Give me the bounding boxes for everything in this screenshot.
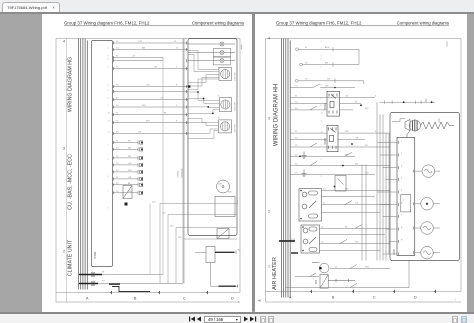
svg-text:BN: BN	[325, 62, 328, 64]
sensor connector symbols	[138, 140, 143, 194]
svg-text:31: 31	[323, 203, 326, 205]
svg-text:42: 42	[295, 154, 298, 156]
switch contacts	[310, 106, 352, 166]
svg-text:MOTOR: MOTOR	[235, 124, 237, 133]
blower motor	[392, 119, 420, 138]
motor M1	[219, 68, 232, 81]
svg-text:MOTOR: MOTOR	[235, 72, 237, 81]
wire y269	[98, 283, 183, 285]
svg-text:8: 8	[321, 98, 323, 100]
feed arrow	[279, 240, 295, 242]
svg-text:WS: WS	[365, 108, 369, 110]
svg-text:2: 2	[321, 159, 323, 161]
relay K2	[217, 229, 229, 239]
svg-text:4: 4	[321, 59, 323, 61]
svg-text:54: 54	[116, 48, 119, 50]
svg-text:6: 6	[108, 85, 110, 87]
svg-text:31: 31	[116, 56, 119, 58]
wire rows bottom	[285, 261, 409, 288]
motor M2	[219, 98, 231, 112]
svg-text:54: 54	[305, 62, 308, 64]
svg-text:GN: GN	[325, 86, 329, 88]
svg-text:4: 4	[401, 178, 403, 180]
svg-text:44: 44	[295, 108, 298, 110]
bus wires	[281, 39, 290, 298]
svg-text:54: 54	[323, 189, 326, 191]
svg-text:WS: WS	[355, 242, 359, 244]
svg-text:6: 6	[321, 85, 323, 87]
svg-text:SB: SB	[355, 164, 358, 166]
wire row y73	[290, 84, 355, 88]
junction box mid	[334, 176, 346, 192]
ground bar thick	[79, 274, 102, 276]
glow element 1	[422, 165, 435, 178]
switch panel 507A	[299, 189, 322, 222]
svg-text:5: 5	[321, 208, 323, 210]
sensor G1	[217, 180, 230, 193]
svg-text:2: 2	[401, 153, 403, 155]
wire vertical bus right	[182, 39, 184, 284]
svg-text:CLIMATE UNIT: CLIMATE UNIT	[68, 239, 74, 276]
svg-text:AT: AT	[102, 271, 105, 274]
frame tick right	[241, 45, 243, 50]
bus wires	[79, 39, 88, 290]
bottom toolbar	[0, 312, 474, 323]
svg-text:8: 8	[401, 227, 403, 229]
svg-text:SB: SB	[154, 67, 157, 69]
lamp row 2	[188, 48, 235, 56]
svg-text:12: 12	[321, 227, 324, 229]
svg-text:503A: 503A	[323, 103, 327, 110]
svg-text:4: 4	[321, 191, 323, 193]
wire number labels	[102, 41, 241, 283]
svg-text:1: 1	[268, 265, 270, 269]
svg-text:35: 35	[295, 137, 298, 139]
grid numbers	[63, 40, 65, 254]
wire thick right	[215, 251, 235, 253]
svg-text:Group 37 Wiring diagram FH6, F: Group 37 Wiring diagram FH6, FM12, FH12	[276, 21, 362, 26]
svg-text:9: 9	[108, 105, 110, 107]
svg-text:SW: SW	[365, 267, 369, 269]
svg-text:21: 21	[116, 121, 119, 123]
svg-text:K: K	[218, 118, 220, 120]
svg-text:AIR HEATER: AIR HEATER	[272, 257, 278, 290]
svg-text:215: 215	[178, 237, 182, 239]
svg-text:WIRING DIAGRAM HG: WIRING DIAGRAM HG	[68, 57, 74, 112]
ground 1	[302, 152, 307, 159]
svg-text:7: 7	[401, 215, 403, 217]
wire fanout M3	[188, 119, 219, 139]
wire vertical mid	[162, 61, 164, 275]
browser tab bar	[0, 0, 474, 13]
svg-text:OX1: OX1	[138, 41, 143, 43]
wire w3	[295, 79, 364, 85]
heater block	[390, 113, 460, 261]
svg-text:3: 3	[108, 56, 110, 58]
svg-text:503B: 503B	[323, 138, 327, 145]
svg-text:C: C	[373, 296, 376, 300]
wire fanout M2	[188, 92, 219, 113]
svg-text:9: 9	[401, 240, 403, 242]
sensor stub wires	[113, 142, 139, 192]
terminal strip pin ticks	[399, 141, 414, 256]
svg-text:AC4: AC4	[325, 46, 330, 49]
feeder verticals	[362, 102, 389, 260]
glow element 3	[421, 222, 434, 235]
svg-text:12: 12	[321, 132, 324, 134]
svg-text:213: 213	[162, 213, 166, 215]
wire resistor down	[211, 263, 239, 287]
svg-text:3: 3	[108, 176, 110, 178]
wire rows box to module	[113, 43, 189, 134]
svg-text:8: 8	[108, 98, 110, 100]
lighter E1	[312, 263, 355, 289]
svg-text:MOTOR: MOTOR	[235, 102, 237, 111]
wire y260	[102, 274, 163, 276]
frame tick	[446, 42, 448, 47]
svg-text:CU, -BAS, -MCC, -ECC: CU, -BAS, -MCC, -ECC	[68, 154, 74, 210]
svg-text:31: 31	[305, 47, 308, 49]
svg-text:GN: GN	[146, 85, 150, 87]
svg-text:508: 508	[392, 249, 396, 254]
svg-text:1: 1	[401, 141, 403, 143]
svg-text:Component wiring diagrams: Component wiring diagrams	[192, 21, 244, 26]
frame tick marks	[110, 291, 208, 295]
svg-text:3: 3	[63, 147, 65, 151]
svg-text:Component wiring diagrams: Component wiring diagrams	[397, 21, 449, 26]
svg-text:GR: GR	[355, 137, 359, 139]
svg-text:5: 5	[108, 67, 110, 69]
svg-text:12: 12	[116, 98, 119, 100]
ground bar thick 3	[109, 283, 120, 285]
splice pins	[92, 272, 94, 286]
resistor R1	[206, 247, 215, 263]
svg-text:BN: BN	[142, 48, 145, 50]
svg-text:BN: BN	[128, 148, 131, 150]
svg-text:16: 16	[176, 48, 179, 50]
svg-text:SW: SW	[146, 121, 150, 123]
svg-text:OX: OX	[355, 203, 359, 205]
svg-text:7: 7	[108, 90, 110, 92]
svg-text:11: 11	[321, 121, 324, 123]
svg-text:WS: WS	[345, 189, 349, 191]
svg-text:4: 4	[108, 59, 110, 61]
resistor element	[420, 122, 454, 129]
wire rows mid	[290, 98, 390, 175]
svg-text:44: 44	[321, 242, 324, 244]
svg-text:7: 7	[321, 90, 323, 92]
svg-text:3: 3	[268, 117, 270, 121]
wire row above block	[379, 99, 435, 104]
svg-text:BL: BL	[355, 102, 358, 104]
relay 503A	[327, 91, 340, 116]
svg-text:13.5: 13.5	[291, 239, 296, 241]
svg-text:12: 12	[295, 102, 298, 104]
svg-text:31: 31	[295, 96, 298, 98]
sidebar labels	[68, 57, 74, 276]
svg-text:OX: OX	[345, 96, 349, 98]
svg-text:31: 31	[174, 41, 177, 43]
node dots	[188, 85, 214, 114]
svg-text:21: 21	[295, 131, 298, 133]
svg-text:GR: GR	[138, 132, 142, 134]
lamp row 3	[188, 57, 235, 65]
svg-text:75: 75	[295, 86, 298, 88]
svg-text:4: 4	[108, 191, 110, 193]
svg-text:35: 35	[116, 132, 119, 134]
svg-text:1: 1	[321, 41, 323, 43]
wires strip to elements	[415, 171, 440, 253]
svg-text:2: 2	[268, 210, 270, 214]
svg-text:OX: OX	[132, 56, 136, 58]
svg-text:WIRING DIAGRAM HH: WIRING DIAGRAM HH	[274, 84, 280, 146]
svg-text:10: 10	[321, 113, 324, 115]
svg-text:UNIT: UNIT	[237, 199, 239, 205]
svg-text:K: K	[218, 96, 220, 98]
svg-text:BT: BT	[102, 281, 105, 283]
ground bar thick 2	[79, 283, 98, 285]
svg-text:46: 46	[258, 299, 262, 303]
node dot relay	[125, 203, 128, 206]
svg-text:OX: OX	[160, 98, 164, 100]
module block right	[188, 39, 237, 236]
svg-text:16: 16	[305, 79, 308, 81]
svg-text:2: 2	[63, 250, 65, 254]
svg-text:SW: SW	[345, 131, 349, 133]
glow element 4	[421, 246, 434, 259]
frame border	[56, 39, 240, 303]
gauge 2	[421, 198, 434, 211]
svg-text:75: 75	[116, 67, 119, 69]
motor M3	[219, 120, 232, 133]
svg-text:5: 5	[403, 199, 405, 201]
grid numbers	[268, 37, 270, 269]
svg-text:75: 75	[295, 173, 298, 175]
svg-text:21: 21	[335, 267, 338, 269]
svg-text:8: 8	[375, 131, 377, 133]
pin numbers	[321, 41, 324, 209]
svg-text:GN: GN	[128, 163, 132, 165]
grid letters	[86, 297, 234, 301]
svg-text:2: 2	[108, 48, 110, 50]
svg-text:2: 2	[108, 159, 110, 161]
right page	[255, 14, 467, 312]
svg-text:11: 11	[108, 121, 111, 123]
svg-text:212: 212	[152, 202, 156, 204]
svg-text:31: 31	[295, 145, 298, 147]
switch contacts lower	[310, 201, 362, 288]
header rule	[64, 25, 244, 27]
terminal strip	[397, 138, 415, 256]
svg-text:SB: SB	[327, 79, 330, 81]
svg-text:4: 4	[268, 37, 270, 41]
svg-text:GR: GR	[128, 177, 132, 179]
wire fanout M1	[188, 51, 219, 90]
svg-text:RT: RT	[365, 145, 369, 147]
svg-text:K: K	[218, 68, 220, 70]
inner box S	[401, 195, 411, 212]
svg-text:801: 801	[228, 192, 232, 194]
staircase wires	[160, 204, 237, 284]
relay K1	[123, 186, 132, 199]
svg-text:6: 6	[401, 203, 403, 205]
svg-text:4: 4	[63, 40, 65, 44]
svg-text:44: 44	[116, 105, 119, 107]
svg-text:31: 31	[116, 41, 119, 43]
frame border	[265, 39, 461, 303]
svg-text:→|: →|	[453, 299, 456, 301]
svg-text:5: 5	[321, 67, 323, 69]
svg-text:BL: BL	[164, 113, 167, 115]
svg-text:WS: WS	[142, 105, 146, 107]
svg-text:31: 31	[116, 113, 119, 115]
svg-text:GM: GM	[218, 184, 222, 186]
svg-text:3: 3	[321, 56, 323, 58]
svg-text:5: 5	[401, 190, 403, 192]
svg-text:5408: 5408	[93, 251, 97, 258]
svg-text:10: 10	[108, 113, 111, 115]
left page	[42, 14, 252, 312]
wire bottom L	[112, 287, 150, 292]
svg-text:MODULE: MODULE	[182, 168, 184, 178]
pin ticks module	[186, 42, 188, 136]
wire rows panels	[320, 191, 391, 251]
svg-text:BN: BN	[345, 154, 348, 156]
svg-text:5: 5	[176, 105, 178, 107]
svg-text:D: D	[231, 297, 234, 301]
svg-text:16: 16	[116, 85, 119, 87]
svg-text:153: 153	[314, 279, 318, 284]
svg-text:A: A	[86, 297, 89, 301]
svg-text:A: A	[289, 296, 292, 300]
svg-text:C: C	[183, 297, 186, 301]
frame tick marks	[310, 290, 436, 294]
svg-text:8: 8	[176, 85, 178, 87]
svg-text:5: 5	[375, 96, 377, 98]
svg-text:16: 16	[295, 164, 298, 166]
grid letters	[289, 296, 417, 300]
svg-text:→|: →|	[236, 302, 239, 304]
node dots mid	[299, 104, 362, 166]
wire number labels	[291, 46, 405, 269]
svg-text:5408B: 5408B	[178, 171, 180, 178]
svg-text:3: 3	[321, 176, 323, 178]
wire loop top	[296, 47, 359, 67]
pin numbers	[108, 41, 111, 209]
svg-text:WS: WS	[128, 170, 132, 172]
svg-text:GN: GN	[365, 173, 369, 175]
sidebar labels	[272, 84, 280, 290]
node dots panels	[300, 190, 304, 252]
svg-text:B: B	[332, 296, 335, 300]
svg-text:214: 214	[170, 226, 174, 228]
header rule	[276, 25, 449, 27]
svg-text:AT: AT	[238, 249, 241, 252]
svg-text:9: 9	[176, 121, 178, 123]
svg-text:5: 5	[108, 208, 110, 210]
svg-text:3: 3	[401, 166, 403, 168]
wires block pins left	[377, 143, 397, 255]
lamp row 1	[188, 42, 235, 46]
svg-text:12: 12	[108, 132, 111, 134]
svg-text:2: 2	[176, 67, 178, 69]
connector 5408	[92, 41, 113, 267]
wire resistor in	[195, 251, 206, 253]
svg-text:1: 1	[108, 144, 110, 146]
control unit box	[215, 197, 235, 217]
switch panel 507B	[301, 225, 320, 253]
svg-text:Group 37 Wiring diagram FH6, F: Group 37 Wiring diagram FH6, FM12, FH12	[64, 21, 150, 26]
pin ticks connector	[113, 42, 115, 195]
relay 503B	[327, 125, 338, 151]
svg-text:BL: BL	[345, 227, 348, 229]
motor labels	[235, 72, 240, 205]
svg-text:D: D	[414, 296, 417, 300]
svg-text:1: 1	[108, 41, 110, 43]
svg-text:B: B	[134, 297, 137, 301]
ground 2	[302, 170, 307, 177]
